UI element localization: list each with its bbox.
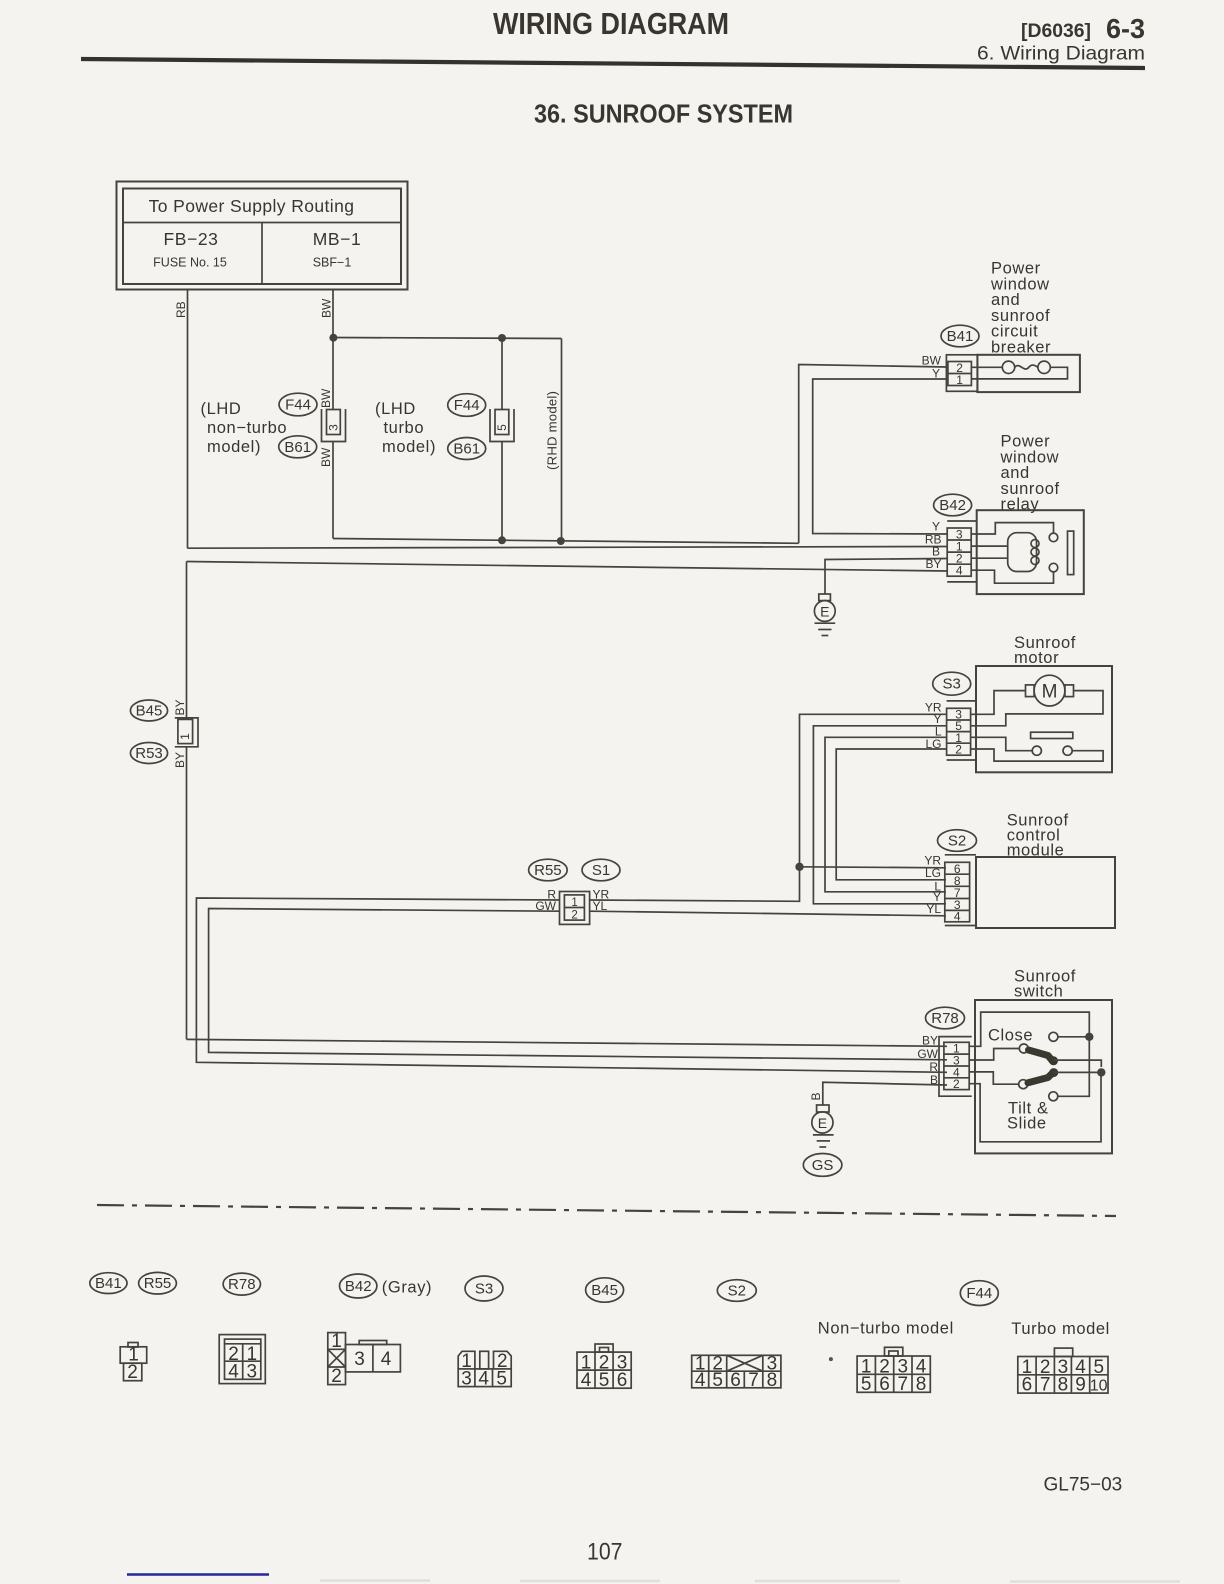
svg-text:6: 6 (1022, 1375, 1033, 1396)
svg-text:4: 4 (956, 564, 963, 578)
wire BY horizontal to switch pin 1 (187, 1039, 948, 1046)
wire BY relay pin 4 long run left (187, 562, 948, 572)
svg-text:7: 7 (1040, 1375, 1051, 1396)
svg-text:Turbo model: Turbo model (1011, 1320, 1110, 1338)
svg-text:R55: R55 (534, 862, 562, 879)
wire close contact tap (1058, 1036, 1089, 1038)
S3 pins (947, 708, 971, 755)
svg-text:R: R (929, 1060, 938, 1074)
wire RB vertical from power box (187, 290, 189, 549)
motor wiring pin 1 to contact (971, 737, 1033, 750)
svg-text:YL: YL (926, 902, 941, 916)
node junction close tap (1085, 1033, 1093, 1041)
relay body (977, 510, 1084, 594)
svg-text:M: M (1042, 682, 1058, 703)
sunroof control module S2 block (924, 811, 1115, 928)
limit switch bar (1031, 732, 1073, 738)
connector label S1 (582, 859, 620, 881)
page header (81, 6, 1145, 129)
svg-text:4: 4 (228, 1361, 239, 1382)
breaker element (971, 361, 1067, 379)
lower lever end dot (1049, 1068, 1058, 1077)
switch wiring GW to upper lever (969, 1049, 1019, 1061)
switch wiring BY feed loop (969, 1012, 1089, 1096)
switch wiring B return (969, 1072, 1101, 1141)
blue bottom mark (127, 1573, 269, 1576)
connector B45/R53 (175, 718, 198, 747)
svg-text:5: 5 (712, 1370, 723, 1391)
svg-text:B42: B42 (939, 497, 966, 514)
bottom connector label B41 (90, 1273, 127, 1294)
connector pinout B41/R55 (120, 1343, 147, 1384)
wire GW from S1 to switch pin 3 (209, 909, 947, 1060)
B42 pins (947, 528, 971, 576)
svg-text:2: 2 (127, 1362, 138, 1383)
switch body box (975, 1000, 1112, 1153)
svg-text:FUSE No. 15: FUSE No. 15 (153, 256, 227, 270)
svg-text:motor: motor (1014, 649, 1059, 667)
svg-text:1: 1 (331, 1331, 342, 1352)
svg-text:LG: LG (925, 866, 941, 880)
text (LHD turbo model) (375, 400, 436, 456)
wire L motor pin 1 to module pin 7 (825, 737, 947, 892)
svg-text:8: 8 (767, 1370, 778, 1391)
fuse F44/B61 pin 5 (LHD turbo) (490, 409, 514, 442)
connector pinout F44 non-turbo (857, 1347, 930, 1395)
svg-text:BY: BY (922, 1034, 938, 1048)
wire (RHD model) vertical (561, 339, 563, 543)
svg-text:B41: B41 (947, 328, 974, 345)
stray dot (829, 1357, 833, 1361)
svg-text:R78: R78 (228, 1276, 256, 1293)
svg-text:WIRING DIAGRAM: WIRING DIAGRAM (493, 6, 729, 41)
svg-text:E: E (818, 1115, 827, 1131)
ground E (relay) (814, 594, 835, 636)
wire BW bottom bus (333, 539, 799, 544)
svg-text:BW: BW (922, 354, 942, 368)
wire BY vertical to sunroof switch (186, 747, 188, 1040)
connector label B61 (turbo) (448, 438, 486, 460)
svg-text:3: 3 (327, 424, 341, 431)
bottom connector label B42 (340, 1274, 377, 1298)
svg-text:To Power Supply Routing: To Power Supply Routing (149, 196, 355, 216)
connector pinout B42 (328, 1331, 401, 1387)
svg-text:3: 3 (461, 1368, 472, 1389)
wire BW top bus (333, 338, 562, 339)
wire BW riser to circuit breaker (799, 365, 947, 544)
connector pinout F44 turbo (1018, 1348, 1108, 1396)
svg-text:GW: GW (917, 1047, 938, 1061)
svg-text:7: 7 (898, 1374, 909, 1395)
wire RB long run to relay pin 1 (188, 547, 948, 549)
svg-text:5: 5 (496, 1368, 507, 1389)
svg-text:5: 5 (495, 424, 509, 431)
breaker body (977, 355, 1080, 392)
wire LG motor pin 2 to module pin 8 (836, 749, 947, 880)
R78 connector bracket (939, 1037, 972, 1097)
motor wiring pin 5 to motor (971, 691, 1103, 726)
node junction levers common (1097, 1068, 1105, 1076)
power supply routing box (117, 182, 408, 290)
svg-text:1: 1 (571, 897, 577, 909)
svg-text:6. Wiring Diagram: 6. Wiring Diagram (977, 43, 1145, 65)
svg-text:Y: Y (932, 520, 940, 534)
relay coil (1008, 533, 1039, 572)
ground label GS (803, 1154, 842, 1177)
svg-text:6-3: 6-3 (1106, 13, 1145, 44)
close fixed contact (1049, 1032, 1058, 1041)
R78 pins (944, 1042, 969, 1089)
svg-text:MB−1: MB−1 (313, 229, 362, 249)
svg-text:5: 5 (861, 1374, 872, 1395)
circuit breaker B41 block (941, 260, 1080, 393)
svg-text:S3: S3 (475, 1281, 493, 1298)
svg-text:1: 1 (178, 733, 192, 740)
connector label R53 (130, 743, 167, 764)
upper lever end dot (1049, 1056, 1058, 1065)
wire B switch pin 2 to ground (823, 1082, 947, 1105)
svg-text:8: 8 (1058, 1375, 1069, 1396)
svg-text:BY: BY (173, 752, 187, 768)
svg-text:F44: F44 (454, 397, 480, 414)
svg-text:GS: GS (812, 1157, 834, 1174)
relay armature bar (1068, 531, 1074, 575)
svg-text:R78: R78 (931, 1010, 959, 1027)
svg-text:R53: R53 (135, 745, 163, 762)
svg-text:B61: B61 (453, 441, 480, 458)
lower lever pivot (1019, 1080, 1028, 1089)
motor M symbol (1026, 675, 1074, 706)
svg-text:36. SUNROOF SYSTEM: 36. SUNROOF SYSTEM (534, 99, 793, 129)
svg-text:4: 4 (381, 1349, 392, 1370)
svg-text:(LHD: (LHD (375, 400, 416, 418)
connector label S2 (938, 830, 977, 852)
connector pinout S2 (692, 1353, 781, 1390)
text (LHD non-turbo model) (201, 400, 288, 456)
svg-text:BY: BY (173, 699, 187, 715)
svg-text:4: 4 (695, 1370, 706, 1391)
svg-text:5: 5 (1094, 1357, 1105, 1378)
svg-text:2: 2 (955, 742, 962, 756)
svg-text:[D6036]: [D6036] (1021, 21, 1091, 42)
upper lever arm (1029, 1050, 1053, 1061)
svg-text:Close: Close (988, 1026, 1033, 1044)
wire BW below fuse 3 (332, 442, 334, 539)
svg-text:turbo: turbo (384, 419, 425, 437)
svg-text:6: 6 (617, 1370, 628, 1391)
relay wiring pin 4 to lower contact (971, 570, 1053, 583)
switch wiring R to lower lever (969, 1072, 1019, 1084)
svg-text:6: 6 (879, 1374, 890, 1395)
svg-text:4: 4 (954, 910, 961, 924)
svg-text:non−turbo: non−turbo (207, 419, 287, 437)
connector label R78 (926, 1007, 965, 1029)
svg-text:Slide: Slide (1007, 1114, 1047, 1132)
relay contacts (1049, 533, 1058, 542)
header rule (81, 59, 1145, 68)
svg-text:S2: S2 (728, 1283, 746, 1300)
svg-text:B61: B61 (284, 439, 311, 456)
ground E (switch) (812, 1105, 834, 1147)
relay B42 block (934, 433, 1084, 595)
svg-text:9: 9 (1075, 1375, 1086, 1396)
node junction fuse5 to bus (498, 536, 506, 544)
svg-text:4: 4 (478, 1368, 489, 1389)
bottom connector label R78 (223, 1273, 260, 1295)
svg-text:B45: B45 (136, 703, 163, 720)
svg-text:S2: S2 (948, 833, 966, 850)
B41 connector bracket (946, 355, 977, 392)
svg-text:5: 5 (599, 1370, 610, 1391)
wire B relay pin 2 to ground (825, 559, 947, 595)
limit switch contact 2 (1063, 746, 1072, 755)
svg-text:LG: LG (925, 737, 941, 751)
relay wiring pin 3 to upper contact (971, 523, 1053, 534)
S2 pins (945, 862, 970, 922)
text sunroof control module (1007, 811, 1069, 859)
wire lower lever to common (1054, 1071, 1102, 1073)
svg-text:SBF−1: SBF−1 (313, 256, 352, 270)
wire Y breaker to relay (813, 379, 947, 534)
wire BW vertical from power box (332, 290, 334, 410)
svg-text:S3: S3 (943, 676, 961, 693)
node junction RHD to bus (557, 537, 565, 545)
motor wiring pin 3 to motor (971, 691, 1026, 715)
bottom edge smudges (320, 1581, 1180, 1582)
sunroof motor S3 block (925, 634, 1112, 772)
svg-text:BW: BW (320, 298, 334, 318)
wire YR from S1 up to motor (590, 714, 947, 901)
S3 connector bracket (947, 700, 976, 702)
module body box (976, 857, 1115, 928)
wire R from S1 to switch pin 4 (196, 898, 947, 1072)
connector label R55 (529, 859, 568, 881)
svg-text:FB−23: FB−23 (163, 229, 218, 249)
connector pinout R78 (219, 1335, 265, 1384)
wire fuse5 vertical (501, 338, 503, 410)
upper lever pivot (1019, 1044, 1028, 1053)
wire YL from S1 to module pin 4 (590, 911, 946, 916)
svg-text:(RHD model): (RHD model) (545, 391, 560, 470)
svg-text:(LHD: (LHD (201, 400, 242, 418)
svg-text:BW: BW (319, 447, 333, 467)
svg-text:8: 8 (916, 1374, 927, 1395)
motor wiring pin 2 to contact (971, 749, 1104, 761)
bottom connector label B45 (586, 1278, 624, 1302)
svg-text:R55: R55 (144, 1275, 172, 1292)
node junction fuse5 branch (498, 334, 506, 342)
relay wiring pin 1 to coil (971, 545, 1008, 547)
svg-text:6: 6 (730, 1370, 741, 1391)
bottom connector label S2 (717, 1280, 756, 1302)
svg-text:2: 2 (331, 1366, 342, 1387)
svg-text:B: B (809, 1092, 823, 1100)
svg-text:1: 1 (956, 373, 963, 387)
dash-dot separator (97, 1205, 1116, 1216)
relay wiring pin 2 to coil (971, 557, 1008, 559)
svg-text:switch: switch (1014, 983, 1063, 1001)
connector label F44 (turbo) (448, 394, 486, 417)
node junction YR to control module (795, 863, 803, 871)
svg-text:2: 2 (571, 910, 577, 922)
svg-text:7: 7 (748, 1370, 759, 1391)
wire BY vertical down to connector B45/R53 (186, 562, 188, 720)
B42 connector bracket (947, 520, 977, 522)
svg-text:Non−turbo model: Non−turbo model (818, 1319, 954, 1337)
connector label S3 (933, 672, 971, 695)
lower lever arm (1028, 1073, 1053, 1083)
sunroof switch R78 block (917, 968, 1112, 1154)
svg-text:B42: B42 (345, 1278, 372, 1295)
wire YR junction to module pin 6 (800, 867, 947, 868)
svg-text:RB: RB (174, 301, 188, 318)
connector label B61 (left) (279, 436, 317, 458)
node BW junction at top bus (329, 334, 337, 342)
wire Y motor pin 5 to module pin 3 (813, 726, 947, 904)
svg-text:B41: B41 (95, 1275, 122, 1292)
svg-text:E: E (820, 604, 829, 620)
connector pinout S3 (458, 1351, 511, 1389)
fuse F44/B61 pin 3 (LHD non-turbo) (322, 409, 346, 442)
svg-text:S1: S1 (592, 862, 610, 879)
B41 pins (948, 362, 972, 386)
connector label B45 (130, 700, 167, 721)
wire below fuse 5 (501, 442, 503, 543)
tilt fixed contact (1049, 1092, 1058, 1101)
svg-text:BY: BY (925, 557, 941, 571)
bottom connector label R55 (139, 1272, 177, 1294)
S2 connector bracket (945, 854, 976, 856)
svg-text:B45: B45 (591, 1282, 618, 1299)
text power window and sunroof circuit breaker (990, 260, 1051, 357)
connector label B42 (934, 494, 972, 516)
svg-text:F44: F44 (285, 397, 311, 414)
text sunroof switch (1014, 968, 1076, 1001)
connector pinout B45 (577, 1344, 631, 1391)
svg-text:4: 4 (581, 1370, 592, 1391)
bottom connector label S3 (465, 1276, 503, 1301)
connector R55/S1 (560, 892, 590, 925)
svg-text:GL75−03: GL75−03 (1044, 1475, 1123, 1496)
limit switch contact 1 (1032, 746, 1041, 755)
bottom connector label F44 (960, 1281, 998, 1306)
svg-text:F44: F44 (966, 1285, 992, 1302)
svg-text:2: 2 (953, 1077, 960, 1091)
svg-text:10: 10 (1090, 1378, 1108, 1395)
text sunroof motor (1014, 634, 1076, 667)
motor body box (976, 666, 1112, 772)
svg-text:model): model) (207, 438, 261, 456)
text power window and sunroof relay (1000, 433, 1060, 514)
connector label B41 (941, 325, 979, 347)
svg-text:3: 3 (247, 1361, 258, 1382)
text Tilt & Slide (1007, 1100, 1049, 1133)
svg-text:BW: BW (319, 388, 333, 408)
wire upper lever to common (1054, 1060, 1102, 1067)
svg-text:(Gray): (Gray) (382, 1279, 432, 1297)
svg-text:model): model) (382, 438, 436, 456)
connector label F44 (left) (279, 393, 317, 416)
svg-text:107: 107 (587, 1539, 623, 1566)
svg-text:3: 3 (354, 1349, 365, 1370)
